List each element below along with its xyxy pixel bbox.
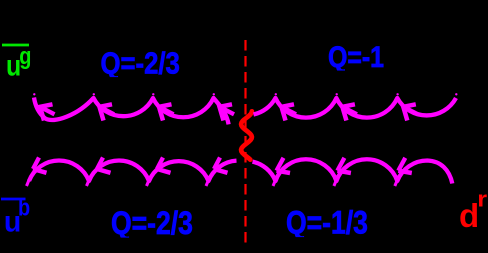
svg-text:Q=-1: Q=-1 <box>328 40 384 74</box>
svg-text:Q=-2/3: Q=-2/3 <box>101 46 180 81</box>
svg-text:d: d <box>459 197 479 234</box>
svg-text:r: r <box>477 188 487 212</box>
svg-text:Q=-1/3: Q=-1/3 <box>286 205 368 241</box>
svg-text:Q=-2/3: Q=-2/3 <box>111 206 193 242</box>
